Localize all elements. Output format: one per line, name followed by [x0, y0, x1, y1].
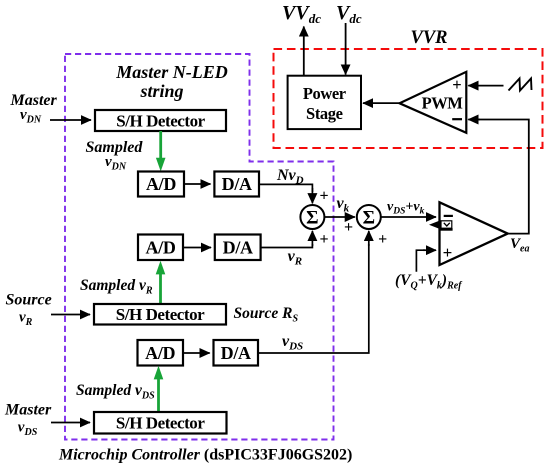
block: A/D 1	[138, 172, 184, 197]
svg-text:vDS: vDS	[18, 420, 38, 439]
wire: Master vDN into S/H Detector 1	[50, 119, 91, 121]
wire: Vea feedback to PWM - input	[470, 120, 529, 234]
summer S2	[357, 205, 381, 229]
svg-text:vDS+vk: vDS+vk	[387, 200, 425, 217]
wire: sawtooth to PWM + input	[468, 85, 503, 87]
sawtooth carrier symbol	[509, 79, 532, 91]
svg-text:S/H Detector: S/H Detector	[116, 305, 205, 324]
svg-text:A/D: A/D	[145, 238, 175, 258]
wire: Vdc input arrow down	[345, 23, 347, 75]
svg-text:Σ: Σ	[363, 208, 375, 229]
svg-text:Source: Source	[6, 292, 52, 309]
wire: green sampled arrow 3 (up)	[157, 378, 160, 412]
svg-text:Master: Master	[10, 92, 58, 109]
wire: NvD to summer 1 top	[259, 184, 312, 192]
block: S/H Detector 2	[94, 304, 226, 325]
svg-text:vR: vR	[19, 310, 33, 329]
wire: PWM output to Power Stage	[363, 102, 400, 104]
block: A/D 2	[138, 235, 183, 261]
svg-text:PWM: PWM	[422, 93, 464, 112]
svg-text:A/D: A/D	[145, 343, 175, 363]
svg-text:VVdc: VVdc	[282, 2, 321, 26]
svg-text:vk: vk	[337, 195, 350, 215]
svg-text:D/A: D/A	[223, 238, 253, 258]
block: S/H Detector 1	[95, 110, 226, 131]
svg-text:Vdc: Vdc	[336, 2, 362, 26]
svg-text:Stage: Stage	[306, 104, 343, 123]
wire: A/D 3 to D/A 3	[183, 352, 210, 354]
pin - of PWM	[452, 118, 462, 120]
svg-text:+: +	[319, 231, 328, 248]
compensation limit symbol inside error amp	[429, 220, 441, 229]
svg-text:+: +	[452, 75, 461, 94]
svg-text:S/H Detector: S/H Detector	[116, 111, 205, 130]
svg-text:+: +	[443, 243, 453, 262]
wire: Source vR into S/H Detector 2	[51, 314, 90, 316]
block: D/A 1	[214, 172, 259, 197]
wire: green sampled arrow 1 (down)	[159, 131, 162, 159]
svg-text:+: +	[319, 188, 328, 205]
wire: vDS to summer 2 bottom	[258, 244, 369, 353]
wire: green sampled arrow 2 (up)	[159, 273, 162, 304]
svg-text:vR: vR	[288, 248, 302, 268]
svg-text:Master N-LED: Master N-LED	[115, 62, 228, 82]
wire: summer2 to error amp - input	[381, 216, 436, 218]
svg-text:vDS: vDS	[282, 333, 303, 353]
wire: Master vDS into S/H Detector 3	[51, 422, 90, 424]
svg-text:Σ: Σ	[306, 208, 318, 229]
wire: A/D 2 to D/A 2	[183, 247, 211, 249]
wire: vR to summer 1 bottom	[261, 244, 313, 248]
svg-text:(VQ+Vk)Ref: (VQ+Vk)Ref	[395, 272, 463, 292]
wire: summer1 to summer2	[324, 216, 355, 218]
svg-text:vDN: vDN	[105, 154, 127, 173]
block: Power Stage	[288, 76, 361, 129]
svg-text:+: +	[344, 219, 353, 236]
svg-text:Vea: Vea	[510, 236, 529, 255]
svg-text:vDN: vDN	[20, 107, 42, 126]
pin - of error amp	[444, 215, 453, 217]
block: A/D 3	[138, 340, 184, 366]
svg-text:string: string	[139, 81, 183, 101]
dashed boundary: Microchip Controller region	[65, 54, 334, 440]
svg-text:Master: Master	[4, 402, 52, 419]
op-amp U-EA error amplifier	[440, 202, 508, 265]
comparator U-PWM triangle	[400, 72, 467, 133]
svg-text:A/D: A/D	[146, 174, 176, 194]
dashed boundary: VVR region	[274, 49, 543, 148]
summer S1	[300, 205, 324, 229]
svg-text:D/A: D/A	[221, 343, 251, 363]
svg-text:S/H Detector: S/H Detector	[116, 414, 205, 433]
wire: reference input to error amp +	[416, 250, 425, 272]
svg-text:VVR: VVR	[411, 28, 448, 48]
block: D/A 3	[214, 340, 259, 366]
block: D/A 2	[215, 235, 261, 261]
svg-text:D/A: D/A	[222, 174, 252, 194]
wire: A/D 1 to D/A 1	[184, 183, 211, 185]
svg-text:Sampled vDS: Sampled vDS	[76, 382, 155, 402]
svg-text:Power: Power	[303, 84, 346, 103]
svg-text:Sampled: Sampled	[86, 139, 144, 156]
svg-text:+: +	[378, 231, 387, 248]
svg-text:Source RS: Source RS	[234, 305, 299, 325]
svg-text:Microchip Controller (dsPIC33F: Microchip Controller (dsPIC33FJ06GS202)	[58, 447, 352, 464]
block: S/H Detector 3	[94, 412, 227, 434]
wire: VVdc output arrow up	[303, 27, 305, 76]
svg-text:Sampled vR: Sampled vR	[80, 277, 153, 297]
